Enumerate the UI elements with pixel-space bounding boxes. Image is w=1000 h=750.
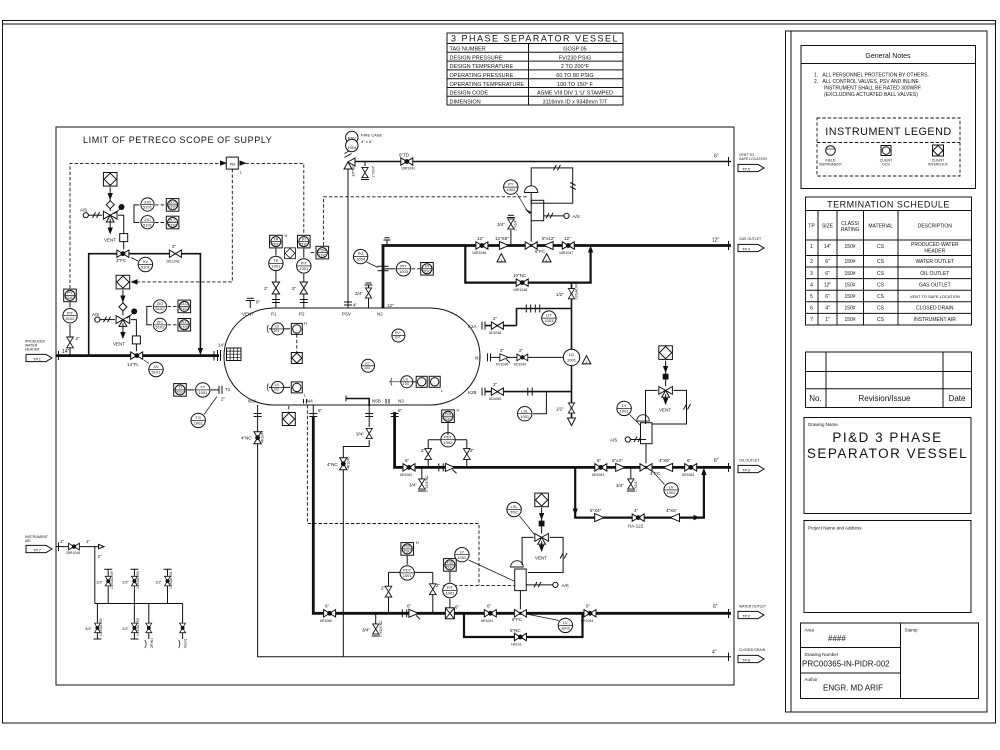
wire T1 to TT (211, 389, 219, 391)
svg-text:2": 2" (519, 348, 524, 353)
svg-text:2": 2" (264, 286, 269, 291)
instrument ZIB-2 (153, 318, 166, 331)
legend field instrument (826, 146, 836, 156)
legend client interlock (933, 145, 944, 156)
svg-text:2"FC: 2"FC (116, 258, 127, 263)
svg-text:12"X8": 12"X8" (495, 236, 509, 241)
svg-text:MATERIAL: MATERIAL (868, 224, 893, 230)
water LV signal box (522, 537, 563, 572)
A/S to LV1002 (526, 584, 552, 586)
flange N4 (309, 413, 317, 415)
svg-text:150#: 150# (844, 282, 855, 288)
svg-text:ASME VIII DIV 1 'U' STAMPED: ASME VIII DIV 1 'U' STAMPED (537, 91, 613, 97)
valve 6in TD vent isolation (401, 158, 413, 165)
vessel vent nozzle stub (249, 301, 251, 309)
svg-text:5102: 5102 (66, 295, 76, 300)
svg-text:No.: No. (809, 394, 821, 403)
svg-text:1/2": 1/2" (556, 407, 564, 412)
svg-text:6"FC: 6"FC (512, 617, 523, 622)
svg-text:12": 12" (824, 282, 832, 288)
title panel double left edge (786, 31, 988, 712)
svg-text:DIMENSION: DIMENSION (450, 99, 481, 105)
svg-text:4: 4 (810, 282, 813, 288)
svg-text:1/2": 1/2" (96, 579, 104, 584)
svg-text:1001: 1001 (520, 414, 530, 419)
svg-text:VENT TO SAFE LOCATION: VENT TO SAFE LOCATION (910, 294, 960, 299)
instrument PI-TDC gas (421, 263, 434, 276)
A/S supply B (100, 319, 115, 321)
instrument PY-1002 (504, 180, 518, 194)
svg-text:1/2": 1/2" (122, 626, 130, 631)
svg-text:Area: Area (805, 628, 815, 633)
svg-text:14": 14" (62, 349, 70, 355)
svg-text:1/2": 1/2" (556, 292, 564, 297)
svg-text:2": 2" (381, 586, 386, 591)
svg-text:2": 2" (493, 316, 498, 321)
bottom block (801, 623, 979, 699)
svg-text:6D1049: 6D1049 (514, 363, 526, 367)
water bypass valve 6in NC (514, 633, 526, 640)
svg-text:Drawing Name: Drawing Name (808, 422, 838, 427)
svg-text:LG: LG (569, 352, 574, 357)
svg-text:DESIGN TEMPERATURE: DESIGN TEMPERATURE (450, 64, 514, 70)
svg-text:Author: Author (805, 677, 819, 682)
air drop 1 (93, 604, 101, 640)
svg-text:TP.7: TP.7 (33, 547, 42, 552)
wire diamond to regulator B (122, 290, 124, 315)
air riser 1 (104, 569, 112, 603)
svg-text:TP: TP (808, 224, 815, 230)
svg-text:INSTRUMENT: INSTRUMENT (819, 163, 843, 167)
svg-text:3/4": 3/4" (362, 628, 370, 633)
svg-text:1: 1 (810, 244, 813, 250)
signal PSH up and right (324, 197, 527, 246)
vessel internal LSH switch row (269, 328, 290, 330)
svg-text:8"x12": 8"x12" (542, 236, 555, 241)
instrument FIT-1001 (443, 583, 457, 597)
wire N2 flange ticks (378, 265, 389, 267)
spec table frame (447, 33, 623, 105)
arrow pilot down into header (198, 348, 202, 354)
valve 4in NC closed drain N5A (254, 432, 261, 444)
svg-text:PIT: PIT (301, 261, 308, 266)
svg-text:P1: P1 (271, 312, 277, 317)
svg-text:5102: 5102 (156, 306, 166, 311)
svg-text:CS: CS (877, 317, 885, 323)
svg-text:1/2": 1/2" (122, 579, 130, 584)
svg-text:3/4": 3/4" (85, 626, 93, 631)
svg-text:1001: 1001 (299, 266, 309, 271)
regulator 3way water (535, 534, 549, 545)
svg-text:1: 1 (546, 258, 548, 262)
svg-text:1"X3/4"NC: 1"X3/4"NC (379, 620, 383, 637)
svg-text:SAFE LOCATION: SAFE LOCATION (739, 157, 767, 161)
svg-text:TDC: TDC (318, 252, 326, 257)
svg-text:INTERLOCK: INTERLOCK (928, 163, 949, 167)
instrument ZLB-2 (178, 319, 191, 332)
regulator 3way oil (659, 387, 673, 398)
svg-text:1003: 1003 (399, 269, 409, 274)
svg-text:CS: CS (877, 306, 885, 312)
svg-text:1/2GA1051: 1/2GA1051 (169, 571, 173, 589)
svg-text:7: 7 (810, 317, 813, 323)
svg-text:ENGR. MD ARIF: ENGR. MD ARIF (823, 684, 883, 693)
svg-text:TP.6: TP.6 (742, 657, 751, 662)
svg-text:6R1062: 6R1062 (400, 473, 412, 477)
air drop 3 (148, 604, 150, 640)
instrument LY-1001 (617, 401, 631, 415)
svg-text:3/4": 3/4" (356, 432, 364, 437)
svg-text:1/2GA1049: 1/2GA1049 (575, 282, 579, 300)
wire bridle standpipe (571, 283, 573, 418)
svg-text:6"x4": 6"x4" (612, 458, 623, 463)
valve 4in NC drain N5B (340, 458, 347, 470)
svg-text:VENT: VENT (535, 556, 547, 561)
instrument PDI-TDC water (401, 543, 414, 556)
svg-text:2: 2 (810, 259, 813, 265)
svg-text:OIL OUTLET: OIL OUTLET (920, 271, 949, 277)
svg-text:PRC00365-IN-PIDR-002: PRC00365-IN-PIDR-002 (802, 660, 890, 669)
svg-text:INSTRUMENT AIR: INSTRUMENT AIR (914, 317, 957, 323)
LV1002 dome (511, 561, 524, 567)
valve N5B 3/4in (366, 428, 372, 438)
wire vent to safe location 6in (352, 161, 731, 163)
svg-text:6": 6" (405, 458, 410, 463)
instrument LSLL-1001 (518, 407, 532, 421)
signal PB down to interlock B (134, 169, 232, 282)
svg-text:PRODUCED WATER: PRODUCED WATER (911, 242, 959, 248)
svg-text:1. ALL PERSONNEL PROTECTION: 1. ALL PERSONNEL PROTECTION BY OTHERS. (814, 73, 929, 79)
svg-text:DESIGN CODE: DESIGN CODE (450, 91, 489, 97)
svg-text:6": 6" (455, 605, 460, 610)
svg-text:HA101: HA101 (511, 643, 522, 647)
limit switch bracket B (147, 306, 152, 324)
svg-text:H: H (304, 321, 307, 326)
svg-text:LV: LV (669, 485, 674, 490)
instrument XV-5101 (149, 362, 163, 376)
svg-text:1"X3/4": 1"X3/4" (372, 165, 376, 177)
svg-text:A/S: A/S (610, 438, 617, 443)
svg-text:Project Name and Address: Project Name and Address (808, 526, 862, 531)
revision issue block (806, 352, 972, 408)
wire TE to TA (275, 249, 277, 256)
svg-text:TAG NUMBER: TAG NUMBER (450, 47, 486, 53)
svg-text:XV: XV (153, 364, 159, 369)
svg-text:4": 4" (712, 650, 717, 656)
wire bridle upper arm (517, 309, 572, 326)
svg-text:102: 102 (273, 387, 279, 391)
svg-text:1001: 1001 (445, 591, 455, 596)
svg-text:6D1050: 6D1050 (489, 397, 501, 401)
svg-text:4": 4" (353, 303, 358, 308)
wire 14in produced water inlet header (56, 354, 219, 357)
svg-text:6": 6" (825, 271, 830, 277)
svg-text:150#: 150# (844, 294, 855, 300)
svg-text:5102: 5102 (66, 316, 76, 321)
instrument ZLC-5101 (166, 216, 179, 229)
svg-text:2F/W1: 2F/W1 (150, 638, 154, 648)
valve 3/4in PV drain (510, 230, 512, 246)
svg-text:VENT: VENT (113, 342, 125, 347)
valve PSV test 3/4in (368, 285, 370, 308)
svg-text:26R1049: 26R1049 (66, 551, 80, 555)
water LV vent regulator: interlock diamond (535, 493, 549, 507)
wire P1 riser (275, 271, 277, 308)
svg-text:TG: TG (195, 415, 201, 420)
svg-text:3 PHASE SEPARATOR VESSEL: 3 PHASE SEPARATOR VESSEL (451, 33, 619, 43)
svg-text:FIRE CASE: FIRE CASE (361, 133, 382, 138)
drawing name block (804, 418, 971, 514)
instrument PDT-1001 (400, 566, 414, 580)
positioner square B (132, 336, 140, 344)
svg-text:CLOSED DRAIN: CLOSED DRAIN (739, 648, 766, 652)
instrument ZLB-1 (178, 300, 191, 313)
vessel internal instrument circle FI (392, 329, 405, 342)
svg-text:150#: 150# (844, 271, 855, 277)
instrument LV-1002 tag (558, 618, 572, 632)
svg-text:1003: 1003 (544, 318, 554, 323)
signal PI to PSH (311, 252, 316, 254)
svg-text:1": 1" (86, 539, 91, 544)
flange P1 (272, 299, 280, 301)
svg-text:5102: 5102 (180, 306, 190, 311)
regulator 3way B (116, 316, 130, 327)
svg-text:1001: 1001 (620, 409, 630, 414)
svg-text:1002: 1002 (457, 555, 467, 560)
svg-text:1004: 1004 (356, 257, 366, 262)
water DP bracket (389, 571, 433, 573)
water DP tap right (432, 572, 434, 613)
nozzle K2B (481, 388, 483, 396)
svg-text:4"X6": 4"X6" (666, 508, 678, 513)
valve 6in oil block2 (595, 464, 607, 471)
vessel internal LSH oil row (389, 381, 401, 383)
svg-text:XV: XV (143, 259, 149, 264)
svg-text:TP.3: TP.3 (742, 467, 751, 472)
svg-text:6D1048: 6D1048 (489, 331, 501, 335)
interlock diamond A (103, 173, 117, 187)
svg-text:General Notes: General Notes (865, 53, 911, 60)
instrument LSLL-TDC water (507, 502, 521, 516)
svg-text:SIZE: SIZE (822, 224, 834, 230)
svg-text:1001: 1001 (271, 264, 281, 269)
oil drain 3/4in (421, 467, 423, 478)
instrument TE-1001 (269, 256, 283, 270)
svg-text:16R1047: 16R1047 (559, 251, 573, 255)
svg-text:FIT: FIT (447, 585, 454, 590)
svg-text:4"NC: 4"NC (327, 462, 338, 467)
wire N5B drain to closed drain (343, 440, 369, 657)
svg-text:LV: LV (563, 620, 568, 625)
wire water bypass loop (464, 613, 583, 637)
svg-text:Revision/Issue: Revision/Issue (858, 394, 911, 403)
svg-text:14": 14" (218, 343, 225, 348)
control valve LV-1001 (640, 464, 652, 471)
svg-text:PIT: PIT (67, 310, 74, 315)
svg-text:TERMINATION SCHEDULE: TERMINATION SCHEDULE (827, 200, 950, 210)
svg-text:LC: LC (365, 361, 370, 365)
wire gas bypass loop (465, 246, 590, 283)
tag TP.5 vent to safe location (739, 153, 767, 161)
arrow gas bypass up (589, 247, 593, 253)
svg-text:2": 2" (500, 348, 505, 353)
svg-text:TDC: TDC (423, 269, 431, 274)
svg-text:16R1041: 16R1041 (401, 167, 415, 171)
svg-text:INSTRUMENT SHALL BE RATED 300W: INSTRUMENT SHALL BE RATED 300WRF. (824, 86, 922, 92)
svg-text:####: #### (828, 634, 846, 643)
wire 2in pilot bypass around 14FL (89, 254, 201, 356)
instrument PY-5102 (64, 289, 77, 302)
arrow oil bypass right (694, 516, 700, 520)
check valve N7 (500, 354, 510, 363)
svg-text:N7: N7 (475, 356, 481, 361)
svg-text:CS: CS (877, 259, 885, 265)
valve 6in water block3 (584, 610, 596, 617)
svg-text:2": 2" (436, 583, 441, 588)
project name block (804, 521, 971, 613)
gas riser vent tee (384, 238, 391, 246)
wire N5A to drain valve (257, 405, 259, 444)
bridle drain funnel (568, 418, 576, 426)
svg-text:CLOSED DRAIN: CLOSED DRAIN (916, 306, 954, 312)
wire P2 riser (303, 274, 305, 308)
valve 1in air ball (69, 543, 80, 550)
PV signal box (531, 168, 573, 203)
instrument TSL-1001 (191, 413, 205, 427)
instrument XV-5101A (138, 257, 152, 271)
svg-text:6": 6" (713, 604, 718, 610)
svg-text:6R1063: 6R1063 (592, 473, 604, 477)
svg-text:150#: 150# (844, 244, 855, 250)
svg-text:5102: 5102 (156, 325, 166, 330)
svg-text:6": 6" (714, 458, 719, 464)
valve 1/2in bridle top (568, 289, 574, 299)
svg-text:3/4"NC: 3/4"NC (352, 165, 356, 177)
wire air drop (95, 547, 183, 604)
svg-text:Date: Date (949, 394, 966, 403)
svg-text:2": 2" (493, 382, 498, 387)
svg-text:12": 12" (387, 303, 394, 308)
svg-text:6": 6" (407, 604, 412, 609)
svg-text:PG: PG (358, 251, 364, 256)
svg-text:CS: CS (877, 294, 885, 300)
svg-text:6": 6" (825, 259, 830, 265)
wire PIT stack (69, 302, 71, 307)
control valve LV-1002 (514, 610, 526, 617)
instrument PIT-1001 (297, 259, 311, 273)
svg-text:3: 3 (810, 271, 813, 277)
svg-text:TT: TT (200, 385, 205, 390)
legend client dcs (881, 146, 891, 156)
flange PSV (344, 301, 352, 303)
svg-text:150#: 150# (844, 317, 855, 323)
valve 1/2in bridle bottom (568, 403, 574, 413)
LV1002 body (515, 569, 527, 591)
wire water outlet 6in line (313, 416, 731, 613)
svg-text:5102: 5102 (180, 325, 190, 330)
oil bypass reducer 6x4 (595, 514, 604, 522)
svg-text:H: H (416, 540, 419, 545)
svg-text:5101: 5101 (143, 222, 153, 227)
svg-text:Stamp: Stamp (905, 628, 919, 633)
vessel inlet vortex breaker N1 (217, 350, 219, 361)
svg-text:HEADER: HEADER (924, 249, 945, 255)
svg-text:8"FC: 8"FC (535, 249, 546, 254)
valve P1 2in (272, 282, 279, 294)
svg-text:6": 6" (825, 294, 830, 300)
main diagram frame (56, 127, 734, 685)
svg-text:6": 6" (398, 408, 403, 413)
svg-text:6"X4": 6"X4" (590, 508, 602, 513)
svg-text:2": 2" (292, 286, 297, 291)
svg-text:FV1090: FV1090 (496, 363, 508, 367)
svg-text:6R1064: 6R1064 (581, 619, 593, 623)
svg-text:107: 107 (394, 336, 400, 340)
solenoid diamond B (119, 303, 127, 311)
svg-text:3116mm ID x 9348mm T/T: 3116mm ID x 9348mm T/T (543, 99, 609, 105)
wire PSV riser (347, 165, 349, 308)
svg-text:LY: LY (460, 549, 465, 554)
svg-text:6"NC: 6"NC (510, 628, 521, 633)
valve 2in FC (117, 250, 129, 257)
svg-text:TP.5: TP.5 (742, 166, 751, 171)
svg-text:16R1048: 16R1048 (513, 288, 527, 292)
svg-text:L: L (304, 393, 307, 398)
svg-text:HA-122: HA-122 (628, 524, 644, 529)
valve vent drain 3/4in NC (364, 162, 366, 167)
valve 6in oil block3 (685, 464, 697, 471)
svg-text:1002: 1002 (506, 187, 516, 192)
wire oil outlet 6in line (395, 412, 731, 467)
svg-text:103: 103 (403, 382, 409, 386)
svg-text:VENT: VENT (659, 408, 671, 413)
svg-text:1/2": 1/2" (155, 579, 163, 584)
flange T1 (218, 386, 220, 394)
oil DP bracket (428, 439, 467, 441)
svg-text:GAS OUTLET: GAS OUTLET (739, 237, 762, 241)
A/S supply A (89, 214, 103, 216)
svg-text:6": 6" (586, 604, 591, 609)
instrument PSH-TDC square (316, 246, 329, 259)
svg-text:2": 2" (76, 336, 81, 341)
tag TP.1 produced water header (25, 340, 46, 352)
svg-text:L: L (441, 388, 444, 393)
water DP tap left (388, 572, 390, 613)
svg-text:HEADER: HEADER (25, 348, 40, 352)
svg-text:1001: 1001 (567, 358, 577, 363)
svg-text:TDC: TDC (510, 510, 518, 515)
svg-text:5101: 5101 (143, 205, 153, 210)
svg-text:1": 1" (825, 317, 830, 323)
valve 12in gas isolation (476, 242, 488, 249)
svg-text:A/S: A/S (92, 312, 99, 317)
instrument LY-1002 (455, 548, 469, 562)
svg-text:TDC: TDC (403, 549, 411, 554)
svg-text:4R1044: 4R1044 (261, 431, 265, 443)
schedule rows (810, 242, 960, 323)
svg-text:AIR: AIR (25, 539, 31, 543)
signal PB to PI stack (246, 163, 304, 234)
oil DP element (441, 433, 455, 447)
interlock diamond TSH (285, 248, 296, 259)
nozzle K2A (481, 322, 483, 330)
svg-text:2. ALL CONTROL VALVES, PSV A: 2. ALL CONTROL VALVES, PSV AND INLINE (814, 79, 919, 85)
instrument LG-1001 (563, 349, 579, 365)
svg-text:L: L (240, 170, 243, 175)
check valve oil (439, 463, 443, 471)
svg-text:DCS: DCS (882, 163, 890, 167)
svg-text:4": 4" (634, 508, 639, 513)
